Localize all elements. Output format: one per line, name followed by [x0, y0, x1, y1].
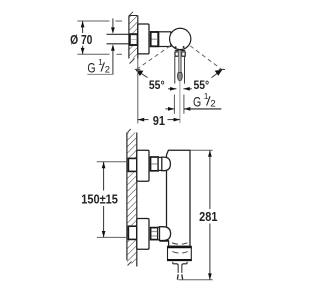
right 55 leader + arrowhead — [212, 70, 223, 78]
dimension row2: outlet G1/2 — [165, 107, 190, 111]
lever bracket (top view) — [175, 50, 185, 56]
dimension 281 — [178, 150, 217, 279]
outlet extension lines (top view) — [174, 95, 184, 114]
in-wall fitting top (side view) — [128, 158, 136, 171]
dashed arc above ring — [172, 243, 187, 245]
dashed swing line left 55 — [136, 46, 170, 70]
wall (top view) hatched band — [129, 12, 138, 64]
screw dots on body — [175, 46, 185, 48]
supply line bottom (ext for 150) — [97, 236, 129, 238]
outlet cylinder edges under lever (top view) — [175, 57, 185, 84]
dimension row1: lever width — [168, 87, 192, 91]
lever axis line — [179, 81, 181, 123]
lever tip bulb — [178, 73, 183, 81]
svg-text:150±15: 150±15 — [81, 192, 118, 207]
svg-text:2: 2 — [210, 98, 215, 109]
dia 70 extension lines — [77, 21, 122, 54]
in-wall fitting bottom (side view) — [128, 226, 136, 239]
union nut bottom (side view) — [151, 228, 158, 240]
svg-text:55°: 55° — [149, 78, 165, 92]
dia 70 dimension line + arrows — [81, 21, 85, 54]
union nut + neck (top view) — [151, 32, 171, 47]
lever shaft (top view) — [178, 50, 181, 73]
wall face extension line (for 91) — [137, 59, 139, 124]
G 1/2 label (top view outlet) with underline — [184, 92, 221, 110]
G 1/2 pipe dimension (top left) — [111, 18, 115, 74]
dashed swing line right 55 — [190, 46, 222, 70]
outlet ring (side view) — [167, 246, 191, 260]
mixer body (side view) — [167, 150, 191, 246]
connector + ball top (side view) — [158, 157, 170, 171]
svg-text:1: 1 — [204, 92, 209, 101]
dashed arc inside ring — [172, 252, 187, 254]
G 1/2 label (top left) with underline — [87, 58, 113, 76]
svg-text:G: G — [193, 95, 201, 110]
in-wall fitting (top view) — [130, 34, 138, 45]
svg-text:1: 1 — [98, 58, 103, 67]
wall (side view) hatched band — [127, 129, 137, 267]
escutcheon bottom (side view) — [137, 219, 149, 250]
right swing end tick — [219, 68, 225, 70]
svg-text:281: 281 — [199, 209, 217, 224]
left swing end tick — [135, 68, 141, 70]
svg-text:Ø 70: Ø 70 — [70, 32, 92, 47]
svg-text:2: 2 — [105, 64, 110, 75]
mixer body circle (top view) — [170, 28, 191, 49]
svg-text:91: 91 — [153, 113, 165, 128]
dimension 150+-15 — [81, 162, 118, 238]
left 55 leader + arrowhead — [136, 70, 148, 77]
union nut top (side view) — [151, 157, 159, 171]
connector + ball bottom (side view) — [158, 227, 171, 241]
svg-text:G: G — [87, 61, 95, 76]
svg-text:55°: 55° — [194, 78, 210, 92]
dimension 91 — [138, 113, 180, 128]
supply line top (ext for 150) — [97, 161, 129, 163]
outlet taper — [173, 262, 178, 266]
escutcheon top (side view) — [137, 150, 149, 181]
supply pipe (top view) — [107, 34, 130, 44]
outlet nipple — [177, 266, 182, 280]
escutcheon flange (top view) — [138, 24, 149, 54]
